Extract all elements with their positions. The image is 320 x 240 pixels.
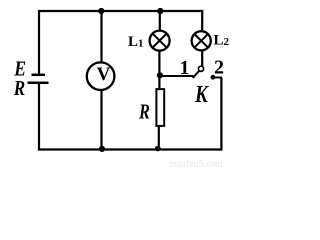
resistor R [156,89,164,126]
wire: bottom bus [38,148,223,150]
svg-text:V: V [97,64,111,85]
wire: switch contact-1 lead [160,75,193,77]
node: junction of L1, resistor R and switch contact 1 [157,72,163,78]
svg-text:R: R [13,76,25,100]
wire: top bus [38,10,203,12]
svg-text:L1: L1 [128,34,144,50]
wire: left branch lower (battery to bottom bus) [38,83,40,150]
svg-text:K: K [194,81,209,108]
wire: L1 to junction node [158,51,160,88]
node: top junction of lamp L1 branch [157,8,163,14]
lamp L1 [150,31,170,51]
svg-text:manfen5.com: manfen5.com [170,159,224,170]
svg-text:2: 2 [214,57,224,79]
node: bottom junction of voltmeter branch [99,146,105,152]
lamp L2 [192,31,211,50]
switch lever [193,71,199,78]
wire: L1 branch from top bus [159,11,161,30]
node: top junction of voltmeter branch [98,8,104,14]
switch contact 2 (dot) [211,75,216,80]
voltmeter V [87,62,115,90]
battery E (cell, plates) [28,75,49,83]
switch K [193,66,216,80]
node: bottom junction of resistor branch [155,146,161,152]
svg-text:1: 1 [180,57,190,79]
wire: L2 down to switch pivot [201,51,203,67]
svg-text:R: R [138,100,150,124]
wire: left branch upper (to battery) [38,10,40,75]
wire: stub from contact 2 [213,77,222,79]
wire: right branch (contact 2 to bottom bus) [220,78,222,151]
svg-text:L2: L2 [214,33,230,49]
wire: top-right corner down to lamp L2 [201,10,203,30]
wire: resistor to bottom bus [158,127,160,151]
wire: voltmeter branch upper [100,11,102,62]
switch pivot (open circle) [198,66,203,71]
wire: voltmeter branch lower [100,91,102,151]
